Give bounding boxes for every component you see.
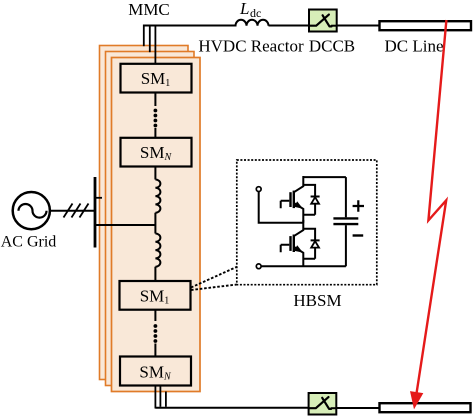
transistor T2 (lower IGBT) with diode D2 [281, 220, 320, 267]
svg-text:HVDC Reactor: HVDC Reactor [198, 37, 304, 56]
callout zoom line upper [191, 266, 238, 287]
submodule SM1 (upper arm) [121, 64, 192, 93]
wire SMN to arm inductor [154, 167, 156, 180]
wire bottom DCCB to DC line [336, 407, 379, 409]
submodule SMN (lower arm) [120, 357, 191, 386]
phase lead 2 (bottom) [159, 386, 161, 407]
dots (upper arm ellipsis) [154, 109, 158, 128]
wire reactor to DCCB [269, 25, 310, 27]
callout zoom line lower [191, 284, 239, 290]
AC source G1 [13, 192, 50, 229]
wire top rail [303, 176, 346, 178]
three-phase slashes [64, 204, 89, 218]
wire terminal top to midpoint [259, 192, 304, 223]
submodule SMN (upper arm) [121, 138, 192, 167]
wire dots to SMN (lower) [154, 344, 156, 358]
capacitor C1 [333, 177, 358, 266]
bus stub [95, 197, 102, 199]
dots (lower arm ellipsis) [154, 324, 158, 343]
arm inductor lower [155, 234, 160, 267]
svg-text:AC Grid: AC Grid [1, 234, 57, 251]
svg-text:HBSM: HBSM [293, 291, 341, 310]
wire dots to SMN (upper) [154, 128, 156, 138]
phase lead 3 (bottom) [165, 392, 167, 407]
DC line cable (top) [380, 21, 472, 30]
node terminal bottom [256, 264, 261, 269]
inductor Ldc [236, 20, 269, 26]
svg-text:DC Line: DC Line [384, 37, 443, 56]
wire bottom DC bus [155, 407, 309, 409]
phase lead 2 (top) [149, 25, 151, 53]
phase lead 1 (bottom) [154, 386, 156, 409]
arm inductor upper [155, 180, 160, 213]
submodule SM1 (lower arm) [120, 281, 191, 310]
DCCB top (breaker box) [309, 10, 337, 32]
phase lead 3 (top) [154, 25, 156, 65]
bus bar B1 [94, 177, 97, 248]
svg-text:dc: dc [250, 6, 261, 20]
wire AC source to bus [50, 210, 95, 212]
wire SM1 to dots (upper) [154, 93, 156, 107]
node terminal top [256, 187, 261, 192]
phase lead 1 (top) [143, 25, 145, 47]
wire inductor to midpoint [154, 213, 156, 234]
DCCB bottom (breaker box) [309, 393, 337, 415]
polarity label plus [353, 200, 364, 211]
transistor T1 (upper IGBT) with diode D1 [281, 176, 320, 223]
svg-text:L: L [239, 0, 249, 18]
wire inductor to SM1 lower [154, 267, 156, 282]
wire bus to arm midpoint [95, 224, 155, 226]
HBSM dashed box [237, 160, 377, 285]
fault arrow (red lightning) [416, 20, 447, 400]
DC line cable (bottom) [380, 403, 471, 412]
wire top DC bus (MMC to reactor) [144, 25, 237, 27]
svg-text:DCCB: DCCB [309, 37, 355, 56]
polarity label minus [353, 234, 364, 236]
MMC phase panel front [112, 58, 201, 392]
svg-text:MMC: MMC [128, 0, 170, 19]
wire SM1 to dots (lower) [154, 310, 156, 321]
wire DCCB to DC line [337, 25, 380, 27]
MMC phase panel middle [106, 52, 195, 386]
wire bottom rail [261, 265, 346, 267]
MMC phase panel back [100, 46, 189, 380]
